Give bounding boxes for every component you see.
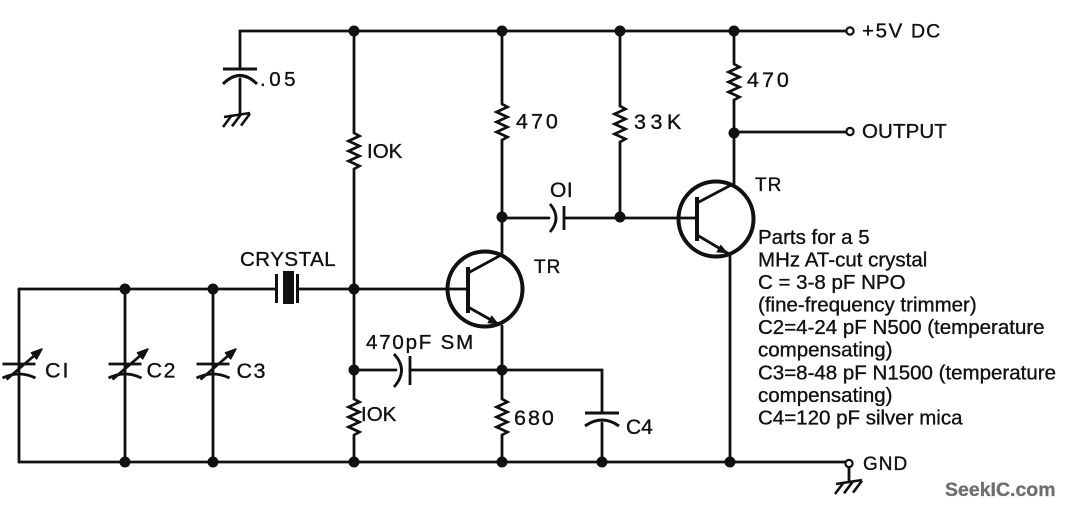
svg-text:C = 3-8 pF NPO: C = 3-8 pF NPO: [758, 271, 906, 294]
svg-text:C4=120 pF silver mica: C4=120 pF silver mica: [758, 406, 963, 429]
svg-text:C3: C3: [237, 359, 267, 383]
svg-text:470: 470: [516, 110, 561, 134]
svg-text:(fine-frequency trimmer): (fine-frequency trimmer): [758, 294, 977, 317]
svg-text:SeekIC.com: SeekIC.com: [945, 479, 1056, 501]
svg-text:C2=4-24 pF N500 (temperature: C2=4-24 pF N500 (temperature: [758, 316, 1045, 339]
svg-text:GND: GND: [863, 454, 908, 475]
svg-text:470: 470: [747, 68, 792, 92]
svg-text:DC: DC: [911, 21, 941, 43]
svg-text:33K: 33K: [634, 110, 686, 134]
svg-text:C2: C2: [147, 359, 177, 383]
svg-text:compensating): compensating): [758, 384, 892, 407]
svg-text:OI: OI: [550, 179, 573, 202]
svg-text:CI: CI: [45, 359, 71, 383]
svg-text:CRYSTAL: CRYSTAL: [240, 248, 336, 271]
svg-text:TR: TR: [755, 175, 782, 196]
svg-text:IOK: IOK: [361, 403, 397, 426]
svg-text:Parts for a 5: Parts for a 5: [758, 226, 870, 249]
svg-text:OUTPUT: OUTPUT: [862, 120, 947, 143]
svg-text:C3=8-48 pF N1500 (temperature: C3=8-48 pF N1500 (temperature: [758, 361, 1056, 384]
svg-text:470pF SM: 470pF SM: [366, 331, 475, 354]
svg-text:TR: TR: [534, 257, 561, 278]
svg-text:+5V: +5V: [862, 20, 904, 43]
svg-text:IOK: IOK: [367, 140, 403, 163]
svg-text:.05: .05: [260, 68, 299, 91]
svg-text:C4: C4: [626, 416, 653, 439]
svg-text:compensating): compensating): [758, 339, 892, 362]
svg-text:MHz AT-cut crystal: MHz AT-cut crystal: [758, 249, 927, 272]
svg-text:680: 680: [514, 406, 556, 430]
